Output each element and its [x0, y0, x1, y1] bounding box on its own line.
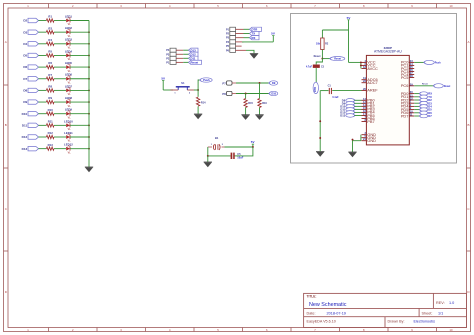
LED LED8 [66, 100, 70, 104]
pin stub header P2 pin 3 [236, 37, 244, 39]
net flag Push at PC0 [424, 60, 434, 64]
wire to net label D13 [183, 49, 188, 51]
wire capacitor C3 to DTR flag [315, 68, 317, 82]
IC U1 right pin 28 PC5 [409, 77, 414, 79]
wire to net label D11 [183, 57, 188, 59]
svg-text:D4: D4 [23, 42, 27, 46]
net flag D2 on PD2 [414, 99, 420, 101]
svg-text:D13: D13 [22, 147, 28, 151]
svg-text:VL: VL [68, 81, 72, 84]
wire D2 to R1 [39, 20, 47, 22]
wire PC0 to Push flag [414, 61, 424, 63]
wire 5V rail down to VCC [347, 19, 349, 21]
net flag TX on PD1 [414, 96, 420, 98]
IC U1 right pin 11 PD7 [409, 115, 414, 117]
svg-text:D6: D6 [23, 65, 27, 69]
wire D12 to R12 [39, 136, 47, 138]
svg-text:LED11: LED11 [64, 131, 73, 135]
svg-text:D9: D9 [23, 100, 27, 104]
wire LED5 to cathode bus [70, 66, 89, 68]
wire R4 to LED3 [54, 43, 66, 45]
wire D12 to pin PB4 [355, 111, 362, 113]
pin stub P7 [232, 82, 236, 84]
ground at R15 [241, 114, 249, 116]
svg-text:VL: VL [68, 47, 72, 50]
svg-text:ATMEGA328P-AU: ATMEGA328P-AU [374, 50, 402, 54]
wire R12 to LED11 [54, 136, 66, 138]
svg-text:R16: R16 [262, 102, 267, 105]
wire B1 pin1 down [207, 147, 209, 156]
resistor R1 [46, 19, 54, 22]
junction [88, 136, 90, 138]
svg-text:LED12: LED12 [64, 143, 73, 147]
svg-text:VL: VL [68, 151, 72, 154]
ground for LED bus [85, 166, 93, 168]
svg-text:B: B [5, 123, 7, 127]
IC U1 right pin 32 PD2 [409, 99, 414, 101]
IC U1 ATMEGA328P-AU body [366, 55, 409, 144]
IC U1 left pin 19 ADC6 [362, 79, 367, 81]
wire to net label Reset [183, 61, 188, 63]
title block [304, 293, 467, 327]
wire P7 junction to resistor R16 [259, 83, 261, 99]
svg-text:Sheet:: Sheet: [422, 311, 433, 315]
pin stub P8 [232, 93, 236, 95]
wire capacitor C5 to B1 ground node [208, 155, 231, 157]
wire header P2 pin 4 to 5V [242, 41, 273, 43]
svg-text:1.0: 1.0 [449, 301, 454, 305]
wire AREF from chip [332, 90, 361, 92]
wire R9 to LED8 [54, 101, 66, 103]
wire to net label TX [244, 33, 250, 35]
svg-text:GND: GND [367, 138, 376, 143]
svg-text:PC6: PC6 [401, 83, 409, 88]
wire R5 to LED4 [54, 54, 66, 56]
IC U1 left pin 6 VCC [362, 64, 367, 66]
LED LED2 [66, 30, 70, 34]
IC U1 right pin 27 PC4 [409, 74, 414, 76]
wire junction to ground [207, 156, 209, 162]
IC U1 right pin 30 PD0 [409, 93, 414, 95]
svg-text:VL: VL [68, 58, 72, 61]
net flag DTR vertical [313, 82, 318, 93]
svg-text:Date:: Date: [307, 311, 316, 315]
svg-text:1/1: 1/1 [438, 311, 443, 315]
junction push node [197, 89, 199, 91]
svg-text:D8: D8 [23, 89, 27, 93]
net flag D3 on PD3 [414, 102, 420, 104]
capacitor C1 0.1uF [328, 88, 330, 94]
wire capacitor C1 to ground rail [320, 90, 328, 92]
junction [88, 113, 90, 115]
IC U1 left pin 21 GND [362, 140, 367, 142]
junction ground rail lower [319, 137, 321, 139]
wire resistor R14 to ground [197, 106, 199, 114]
svg-text:ADC7: ADC7 [367, 80, 377, 85]
pin stub header P3 pin 1 [176, 61, 183, 63]
connector P3 4-pin header [170, 48, 176, 52]
svg-text:D5: D5 [23, 54, 27, 58]
IC U1 right pin 25 PC2 [409, 67, 414, 69]
resistor R14 pulldown [196, 97, 199, 106]
resistor R13 [46, 147, 54, 150]
wire D13 to pin PB5 [355, 114, 362, 116]
IC U1 left pin 13 PB1 [362, 102, 367, 104]
svg-text:5V: 5V [271, 32, 275, 36]
IC U1 right pin 26 PC3 [409, 70, 414, 72]
svg-text:R14: R14 [201, 101, 206, 104]
wire header P2 pin 6 to ground [246, 50, 254, 53]
net label D13 [189, 48, 199, 52]
IC U1 right pin 10 PD6 [409, 112, 414, 114]
svg-text:VL: VL [68, 105, 72, 108]
IC U1 left pin 7 PB6 [362, 117, 367, 119]
net flag RX on PD0 [414, 93, 420, 95]
wire LED10 to cathode bus [70, 124, 89, 126]
wire R7 to LED6 [54, 78, 66, 80]
wire switch S1 to junction [194, 89, 198, 91]
svg-text:10k: 10k [316, 43, 321, 46]
wire P8 to flag [236, 93, 269, 95]
ground at IC U1 [348, 151, 356, 153]
svg-text:Electronoobs: Electronoobs [414, 320, 436, 324]
svg-text:LED8: LED8 [65, 96, 73, 100]
svg-text:R8: R8 [48, 85, 52, 89]
junction [88, 43, 90, 45]
net label D12 [189, 52, 199, 56]
svg-text:LED2: LED2 [65, 26, 73, 30]
svg-text:D13: D13 [191, 48, 197, 52]
svg-text:Reset: Reset [334, 58, 341, 61]
wire R2 to reset junction [321, 50, 323, 59]
svg-text:Drawn By:: Drawn By: [388, 320, 405, 324]
svg-text:LED6: LED6 [65, 73, 73, 77]
svg-text:D10: D10 [22, 112, 28, 116]
junction reset node [321, 58, 323, 60]
wire D8 to pin PB0 [355, 99, 362, 101]
svg-text:RX: RX [252, 36, 256, 40]
svg-text:VL: VL [68, 23, 72, 26]
svg-text:LED7: LED7 [65, 84, 73, 88]
resistor R3 [46, 30, 54, 33]
junction [88, 101, 90, 103]
svg-text:P7: P7 [222, 81, 226, 85]
wire LED12 to cathode bus [70, 148, 89, 150]
ground at header P2 [250, 53, 258, 55]
resistor R9 [46, 100, 54, 103]
svg-text:PD7: PD7 [401, 113, 409, 118]
IC U1 left pin 17 PB5 [362, 114, 367, 116]
pin stub header P3 pin 2 [176, 57, 183, 59]
svg-text:VL: VL [68, 93, 72, 96]
IC U1 left pin 5 GND [362, 137, 367, 139]
IC U1 left pin 15 PB3 [362, 108, 367, 110]
svg-text:LED1: LED1 [65, 14, 73, 18]
wire LED3 to cathode bus [70, 43, 89, 45]
net flag on P8 wire [269, 91, 278, 95]
resistor R5 [46, 54, 54, 57]
net label D11 [189, 56, 199, 60]
junction VCC2 [360, 64, 362, 66]
ground at R16 [255, 114, 263, 116]
wire 5V rail branch to R2 [322, 29, 348, 31]
svg-text:0.1uF: 0.1uF [332, 96, 339, 99]
ground at B1 [204, 161, 212, 163]
svg-text:LED9: LED9 [65, 108, 73, 112]
pin stub header P3 pin 4 [176, 49, 183, 51]
wire GND pins bus [360, 135, 362, 141]
switch S1 push button [171, 89, 179, 91]
resistor R12 [46, 135, 54, 138]
wire D9 to R9 [39, 101, 47, 103]
wire to net label DTR [244, 28, 250, 30]
wire D13 to R13 [39, 148, 47, 150]
wire branch down to resistor R2 [321, 30, 323, 38]
svg-text:Reset: Reset [191, 60, 199, 64]
svg-text:VL: VL [68, 140, 72, 143]
LED LED10 [66, 123, 70, 127]
svg-text:5V: 5V [251, 140, 255, 144]
LED LED6 [66, 77, 70, 81]
svg-text:2018-07-19: 2018-07-19 [327, 311, 346, 315]
IC U1 left pin 20 AREF [362, 89, 367, 91]
svg-text:D2: D2 [23, 19, 27, 23]
LED LED1 [66, 19, 70, 23]
frame zone tick marks top/bottom [48, 4, 50, 9]
svg-text:DTR: DTR [252, 27, 258, 31]
IC U1 right pin 1 PD3 [409, 102, 414, 104]
wire LED9 to cathode bus [70, 113, 89, 115]
IC U1 right pin 31 PD1 [409, 96, 414, 98]
junction [88, 148, 90, 150]
resistor R8 [46, 89, 54, 92]
wire resistor R15 to ground [245, 108, 247, 115]
wire LED8 to cathode bus [70, 101, 89, 103]
IC U1 right pin 29 PC6 [409, 85, 414, 87]
svg-text:AVCC: AVCC [367, 66, 378, 71]
svg-text:D7: D7 [23, 77, 27, 81]
wire to net label D12 [183, 53, 188, 55]
resistor R10 [46, 112, 54, 115]
net flag Reset [330, 57, 345, 61]
svg-text:5V: 5V [347, 16, 351, 20]
junction [88, 66, 90, 68]
wire R10 to LED9 [54, 113, 66, 115]
svg-text:D3: D3 [23, 30, 27, 34]
pin stub header P2 pin 2 [236, 33, 244, 35]
net flag on P7 wire [269, 81, 278, 85]
net label Reset [189, 60, 202, 64]
svg-text:AREF: AREF [367, 88, 378, 93]
wire LED2 to cathode bus [70, 31, 89, 33]
IC U1 left pin 12 PB0 [362, 99, 367, 101]
wire D6 to R6 [39, 66, 47, 68]
resistor R11 [46, 124, 54, 127]
resistor R4 [46, 42, 54, 45]
junction VCC1 [360, 61, 362, 63]
svg-text:D12: D12 [191, 52, 197, 56]
pin stub header P2 pin 5 unconnected [236, 45, 242, 47]
svg-text:DTR: DTR [314, 87, 317, 92]
pin stub header P2 pin 4 [236, 41, 244, 43]
wire D10 to R10 [39, 113, 47, 115]
wire D3 to R3 [39, 31, 47, 33]
net flag Push [200, 78, 212, 82]
capacitor C5 [235, 155, 243, 157]
svg-text:New Schematic: New Schematic [309, 302, 347, 308]
wire D11 to R11 [39, 124, 47, 126]
svg-text:VL: VL [68, 116, 72, 119]
IC U1 left pin 3 GND [362, 134, 367, 136]
wire 5V node down to capacitor C5 [242, 147, 253, 156]
wire D10 to pin PB2 [355, 105, 362, 107]
IC U1 left pin 14 PB2 [362, 105, 367, 107]
net flag D4 on PD4 [414, 105, 420, 107]
junction B1 ground node [207, 155, 209, 157]
svg-text:LED5: LED5 [65, 61, 73, 65]
wire R11 to LED10 [54, 124, 66, 126]
wire R13 to LED12 [54, 148, 66, 150]
LED LED9 [66, 112, 70, 116]
resistor R7 [46, 77, 54, 80]
svg-text:PC5: PC5 [401, 75, 409, 80]
wire P7 to flag [236, 82, 269, 84]
wire R8 to LED7 [54, 89, 66, 91]
capacitor C3 4.7uF [313, 65, 320, 68]
wire LED cathode bus vertical [88, 21, 90, 168]
wire resistor R16 to ground [259, 108, 261, 115]
svg-text:R11: R11 [48, 119, 53, 123]
net flag D7 on PD7 [414, 115, 420, 117]
wire LED6 to cathode bus [70, 78, 89, 80]
wire LED7 to cathode bus [70, 89, 89, 91]
wire P8 junction to resistor R15 [245, 94, 247, 99]
wire PC6 to Reset flag [414, 85, 434, 87]
junction [88, 124, 90, 126]
svg-text:D12: D12 [22, 135, 28, 139]
IC U1 right pin 23 PC0 [409, 61, 414, 63]
junction [88, 31, 90, 33]
svg-text:5V: 5V [161, 77, 165, 81]
ground at R14 [194, 113, 202, 115]
ground at rail bottom [316, 151, 324, 153]
resistor R2 10k pullup [321, 38, 324, 50]
svg-text:LED3: LED3 [65, 38, 73, 42]
wire reset node down to capacitor C3 [316, 59, 322, 65]
wire junction to Push flag [198, 80, 200, 90]
svg-text:TITLE:: TITLE: [307, 295, 317, 299]
junction [88, 55, 90, 57]
wire B1 pin2 to 5V node [225, 146, 253, 148]
net flag D6 on PD6 [414, 112, 420, 114]
svg-text:EasyEDA V5.6.10: EasyEDA V5.6.10 [307, 320, 336, 324]
svg-text:Reset: Reset [444, 85, 451, 88]
wire D8 to R8 [39, 89, 47, 91]
svg-text:VL: VL [68, 128, 72, 131]
IC U1 left pin 4 VCC [362, 61, 367, 63]
pin stub header P2 pin 1 [236, 28, 244, 30]
IC U1 left pin 18 AVCC [362, 68, 367, 70]
LED LED3 [66, 42, 70, 46]
LED LED11 [66, 135, 70, 139]
LED LED4 [66, 54, 70, 58]
wire to net label RX [244, 37, 250, 39]
wire R6 to LED5 [54, 66, 66, 68]
svg-text:VL: VL [68, 35, 72, 38]
svg-text:R1: R1 [48, 15, 52, 19]
junction GND bus [352, 139, 354, 141]
svg-text:B: B [467, 123, 469, 127]
svg-text:A: A [5, 40, 7, 44]
sub-circuit boundary box [291, 14, 457, 164]
net label DTR [250, 27, 262, 31]
svg-text:LED10: LED10 [64, 119, 73, 123]
junction [88, 89, 90, 91]
junction 5V B1 node [252, 146, 254, 148]
LED LED5 [66, 65, 70, 69]
LED LED7 [66, 89, 70, 93]
wire D4 to R4 [39, 43, 47, 45]
svg-text:R5: R5 [48, 50, 52, 54]
IC U1 left pin 8 PB7 [362, 121, 367, 123]
svg-text:P8: P8 [222, 92, 226, 96]
svg-text:A: A [467, 40, 469, 44]
svg-text:VL: VL [68, 70, 72, 73]
svg-text:TX: TX [252, 32, 256, 36]
junction P7 node [259, 82, 261, 84]
svg-text:R12: R12 [48, 131, 54, 135]
resistor R15 [244, 99, 247, 108]
net flag Reset at PC6 [434, 84, 444, 88]
wire LED1 to cathode bus [70, 20, 89, 22]
IC U1 left pin 22 ADC7 [362, 82, 367, 84]
wire 5V rail to VCC pins [349, 61, 361, 63]
wire R3 to LED2 [54, 31, 66, 33]
svg-text:LED4: LED4 [65, 49, 73, 53]
svg-text:R6: R6 [48, 61, 52, 65]
wire reset node to Reset flag [322, 58, 330, 60]
net label TX [250, 31, 260, 35]
junction P8 node [245, 93, 247, 95]
net label RX [250, 36, 260, 40]
frame zone tick marks left/right [4, 84, 9, 86]
resistor R6 [46, 65, 54, 68]
svg-text:R7: R7 [48, 73, 52, 77]
wire junction to resistor R14 [197, 90, 199, 97]
svg-text:S1: S1 [181, 81, 185, 85]
svg-text:R10: R10 [48, 108, 54, 112]
svg-text:Push: Push [435, 61, 441, 64]
LED LED12 [66, 147, 70, 151]
wire D9 to pin PB1 [355, 102, 362, 104]
IC U1 right pin 2 PD4 [409, 105, 414, 107]
connector P2 6-pin header [230, 27, 236, 31]
wire D5 to R5 [39, 54, 47, 56]
svg-text:R3: R3 [48, 26, 52, 30]
wire 5V to switch S1 [163, 89, 173, 91]
pin stub header P3 pin 3 [176, 53, 183, 55]
wire LED4 to cathode bus [70, 54, 89, 56]
svg-text:D11: D11 [22, 123, 28, 127]
junction ground rail upper [319, 120, 321, 122]
IC U1 right pin 24 PC1 [409, 64, 414, 66]
svg-text:R15: R15 [248, 102, 253, 105]
wire R1 to LED1 [54, 20, 66, 22]
junction [88, 78, 90, 80]
svg-text:R13: R13 [48, 143, 54, 147]
svg-text:REV:: REV: [436, 301, 445, 305]
ground rail vertical in box [319, 91, 321, 152]
